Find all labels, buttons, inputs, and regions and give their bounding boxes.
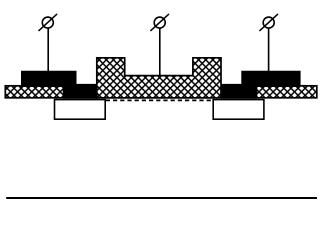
n+ diffusion region left (white box)	[55, 100, 106, 120]
channel (dashed line)	[106, 99, 213, 101]
wire to gate terminal	[159, 27, 161, 76]
wire to drain terminal	[268, 27, 270, 72]
metal contact left (source)	[21, 71, 98, 99]
n+ diffusion region right (white box)	[213, 100, 264, 120]
metal contact right (drain)	[222, 71, 301, 99]
gate terminal symbol (circle with slash)	[150, 14, 169, 31]
gate electrode G (crosshatched block with raised ends)	[97, 58, 221, 98]
drain terminal symbol (circle with slash)	[259, 14, 278, 31]
source terminal symbol (circle with slash)	[39, 14, 58, 31]
wire to source terminal	[47, 27, 49, 71]
oxide layer strip (crosshatched)	[5, 86, 317, 98]
substrate bottom line	[6, 197, 317, 199]
